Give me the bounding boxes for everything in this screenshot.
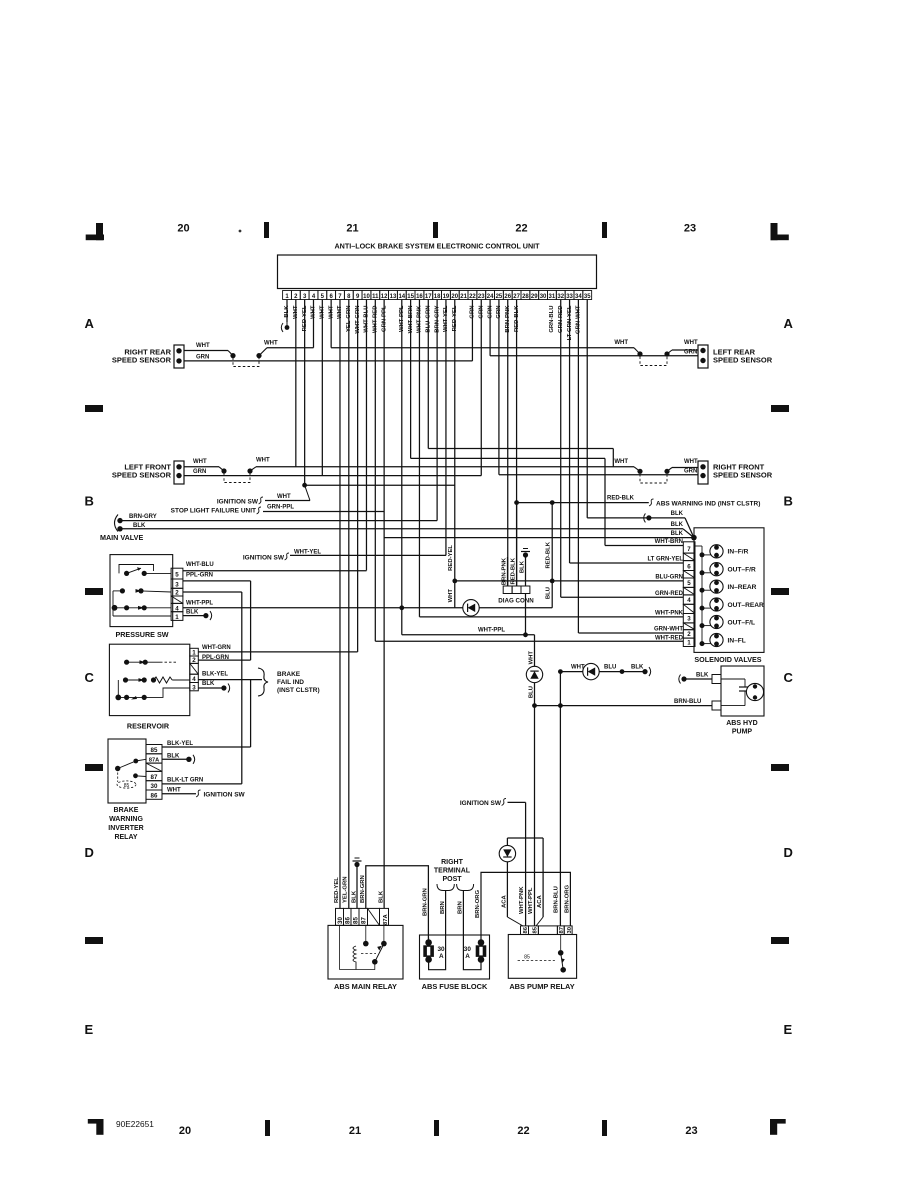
svg-text:BRN-ORG: BRN-ORG [475, 889, 481, 918]
inline connector right rear [230, 353, 235, 358]
svg-text:85: 85 [151, 747, 158, 754]
svg-text:(INST CLSTR): (INST CLSTR) [277, 687, 320, 694]
svg-text:BLK: BLK [167, 753, 180, 759]
inline connector right front [637, 469, 642, 474]
scan speck [239, 230, 242, 233]
wire from pin 11 [374, 300, 376, 642]
svg-text:RELAY: RELAY [114, 834, 137, 841]
pump relay diode loop [507, 837, 543, 839]
svg-text:A: A [465, 953, 470, 960]
svg-text:90E22651: 90E22651 [116, 1119, 154, 1129]
svg-text:BLU: BLU [604, 665, 616, 671]
svg-text:RED-BLK: RED-BLK [546, 541, 552, 568]
wire from pin 6 [330, 300, 332, 348]
svg-text:19: 19 [443, 294, 450, 300]
svg-text:GRN-PPL: GRN-PPL [267, 505, 294, 511]
svg-text:30: 30 [540, 294, 547, 300]
svg-text:ANTI–LOCK BRAKE SYSTEM ELECTRO: ANTI–LOCK BRAKE SYSTEM ELECTRONIC CONTRO… [334, 242, 540, 251]
abs main relay box [328, 925, 403, 979]
abs hyd pump terminal boxes [712, 675, 721, 684]
reservoir internal contacts [124, 660, 129, 665]
svg-text:87: 87 [151, 774, 158, 781]
svg-text:14: 14 [398, 294, 405, 300]
svg-text:2: 2 [687, 631, 691, 638]
svg-text:28: 28 [522, 294, 529, 300]
wire WHT-RED pin11 to solenoid 1 [375, 640, 683, 642]
svg-text:3: 3 [175, 582, 179, 589]
wire WHT left rear sensor to pin 6 [331, 347, 634, 349]
wire from pin 34 [577, 300, 579, 634]
svg-text:SPEED SENSOR: SPEED SENSOR [713, 471, 773, 480]
svg-text:WHT-RED: WHT-RED [655, 636, 684, 642]
wire pin 17 jog to right front WHT [428, 448, 613, 450]
svg-text:BRAKE: BRAKE [277, 671, 301, 678]
svg-text:32: 32 [557, 294, 564, 300]
svg-text:20: 20 [179, 1125, 191, 1137]
svg-text:WHT-PPL: WHT-PPL [186, 601, 213, 607]
solenoid valve coils [700, 552, 705, 557]
wire WHT-BRN pin15 to solenoid 7 [605, 545, 683, 547]
left edge section marks [85, 405, 103, 412]
svg-text:3: 3 [687, 616, 691, 623]
ECU box U1 [278, 255, 597, 289]
svg-text:LT GRN-YEL: LT GRN-YEL [647, 557, 683, 563]
svg-text:ABS MAIN RELAY: ABS MAIN RELAY [334, 982, 397, 991]
svg-text:26: 26 [504, 294, 511, 300]
svg-text:BRN-BLU: BRN-BLU [674, 699, 701, 705]
svg-text:A: A [85, 316, 95, 331]
svg-text:20: 20 [451, 294, 458, 300]
wire from pin 2 [295, 300, 297, 467]
svg-text:PPL-GRN: PPL-GRN [186, 573, 213, 579]
svg-text:85: 85 [124, 783, 130, 789]
BRN post wire 1 to fuse 1 [429, 891, 446, 970]
svg-text:YEL-GRN: YEL-GRN [343, 876, 349, 903]
svg-text:BLK: BLK [631, 665, 644, 671]
junction node pin14 on WHT-PPL [399, 605, 404, 610]
svg-text:87: 87 [361, 917, 368, 924]
wire from pin 20 [454, 300, 456, 608]
svg-text:BLK: BLK [378, 890, 384, 903]
reservoir box [109, 644, 189, 715]
abs hyd pump BLK connector [681, 676, 686, 681]
wire from pin 24 [489, 300, 491, 356]
wire from pin 17 [427, 300, 429, 449]
svg-text:18: 18 [434, 294, 441, 300]
svg-text:SPEED SENSOR: SPEED SENSOR [112, 356, 172, 365]
wire from pin 22 [471, 300, 473, 361]
svg-text:WHT-PNK: WHT-PNK [519, 886, 525, 914]
svg-text:IGNITION SW: IGNITION SW [217, 499, 259, 506]
wire from pin 7 [339, 300, 341, 909]
svg-text:GRN: GRN [196, 355, 209, 361]
svg-text:ABS HYD: ABS HYD [726, 720, 758, 727]
wire WHT-PPL pin13 run [402, 634, 535, 636]
svg-text:C: C [85, 670, 95, 685]
wire LT GRN-YEL pin33 to solenoid 6 [570, 562, 684, 564]
svg-text:WHT: WHT [448, 589, 454, 603]
svg-text:5: 5 [175, 572, 179, 579]
svg-text:WHT-BRN: WHT-BRN [655, 539, 683, 545]
solenoid terminal column 7-1 [683, 542, 695, 553]
svg-text:IGNITION SW: IGNITION SW [460, 800, 502, 807]
wire BRN-GRY main valve to pin 18 [120, 520, 437, 522]
svg-text:86: 86 [151, 793, 158, 800]
wire ignition feed to RED-YEL column [305, 484, 455, 486]
svg-text:BLU: BLU [546, 587, 552, 599]
pressure switch internal contacts [119, 565, 154, 574]
top column tick 21-22 [433, 222, 438, 238]
svg-text:WHT: WHT [684, 340, 698, 346]
svg-text:RED-BLK: RED-BLK [511, 557, 517, 584]
svg-text:WHT: WHT [614, 459, 628, 465]
svg-text:PUMP: PUMP [732, 729, 753, 736]
solenoid ground junction node [691, 535, 697, 541]
svg-text:WHT: WHT [277, 494, 291, 500]
svg-text:ACA: ACA [501, 894, 507, 908]
wire from pin 16 [418, 300, 420, 617]
wire from pin 4 [312, 300, 314, 348]
wire from pin 9 [357, 300, 359, 652]
fuse 1 30A [428, 938, 430, 943]
left front speed sensor box [174, 461, 184, 484]
svg-text:ABS PUMP RELAY: ABS PUMP RELAY [509, 982, 574, 991]
abs pump relay box [508, 935, 576, 979]
svg-text:BRN-GRY: BRN-GRY [129, 514, 157, 520]
inline connector left front [221, 468, 226, 473]
abs hyd pump internal capacitor and motor [721, 678, 745, 680]
svg-text:23: 23 [478, 294, 485, 300]
svg-text:85: 85 [532, 926, 538, 933]
svg-text:INVERTER: INVERTER [108, 825, 143, 832]
svg-text:SPEED SENSOR: SPEED SENSOR [713, 356, 773, 365]
svg-text:ABS WARNING IND (INST CLSTR): ABS WARNING IND (INST CLSTR) [656, 501, 760, 508]
svg-text:23: 23 [684, 223, 696, 235]
svg-text:B: B [784, 494, 793, 509]
svg-text:BRN-GRN: BRN-GRN [423, 888, 429, 916]
svg-text:13: 13 [390, 294, 397, 300]
svg-text:BLK-LT GRN: BLK-LT GRN [167, 778, 203, 784]
junction node ignition [302, 483, 307, 488]
wire GRN right rear sensor to pin 22 [184, 360, 473, 362]
svg-text:16: 16 [416, 294, 423, 300]
svg-text:B: B [85, 494, 94, 509]
vertical wire BLK-YEL to inverter relay [250, 680, 252, 747]
fuse 2 30A [480, 938, 482, 943]
svg-text:IGNITION SW: IGNITION SW [243, 555, 285, 562]
svg-text:WHT: WHT [167, 788, 181, 794]
svg-text:21: 21 [346, 223, 358, 235]
svg-text:85: 85 [352, 917, 359, 924]
svg-text:BLK: BLK [696, 673, 709, 679]
three BLK wires to solenoid common [586, 300, 588, 518]
svg-text:SPEED SENSOR: SPEED SENSOR [112, 471, 172, 480]
wire from pin 14 [401, 300, 403, 635]
wire BLK main valve to solenoid ground node [120, 528, 683, 530]
svg-text:87A: 87A [149, 757, 159, 763]
wire BRN-BLU to abs hyd pump [535, 705, 713, 707]
solenoid internal rail [695, 545, 702, 547]
svg-text:BLK: BLK [520, 560, 526, 573]
diag conn BLK ground [525, 556, 527, 586]
svg-text:BRN-ORG: BRN-ORG [564, 884, 570, 913]
svg-text:OUT–REAR: OUT–REAR [728, 602, 765, 609]
bottom column tick 20-21 [265, 1120, 270, 1136]
svg-text:IN–FL: IN–FL [728, 637, 746, 644]
pressure switch box [110, 555, 173, 627]
svg-text:RIGHT: RIGHT [441, 859, 464, 866]
pressure switch terminals 5 3 2 4 1 [171, 568, 183, 579]
svg-text:BLK: BLK [186, 610, 199, 616]
svg-text:WHT: WHT [529, 651, 535, 665]
vertical wire relay 87 to pump [559, 672, 561, 926]
svg-text:IN–REAR: IN–REAR [728, 584, 757, 591]
svg-text:DIAG CONN: DIAG CONN [498, 598, 534, 605]
wire pressure sw terminal 2 jog [183, 591, 242, 593]
wire from pin 8 [348, 300, 350, 909]
svg-text:12: 12 [381, 294, 388, 300]
top column tick 22-23 [602, 222, 607, 238]
abs fuse block box [420, 935, 490, 979]
svg-text:E: E [784, 1022, 793, 1037]
wire GRN left rear sensor to pin 24 [490, 355, 698, 357]
svg-text:11: 11 [372, 294, 379, 300]
wire from pin 12 [383, 300, 385, 909]
reservoir terminals 1 2 4 3 [190, 648, 199, 656]
junction node pump feed [532, 703, 537, 708]
svg-text:GRN-WHT: GRN-WHT [654, 627, 683, 633]
bottom column tick 21-22 [434, 1120, 439, 1136]
svg-text:22: 22 [515, 223, 527, 235]
main relay internals [340, 926, 356, 970]
top-left corner registration mark [96, 223, 103, 240]
svg-text:BRN: BRN [440, 901, 446, 914]
bottom-right corner registration mark [773, 1119, 786, 1124]
svg-text:BLK: BLK [133, 523, 146, 529]
svg-text:RED-YEL: RED-YEL [334, 877, 340, 903]
svg-text:ABS FUSE BLOCK: ABS FUSE BLOCK [422, 982, 488, 991]
brake warning inverter relay box [108, 739, 146, 803]
abs hyd pump box [721, 666, 764, 716]
svg-text:22: 22 [517, 1125, 529, 1137]
svg-text:35: 35 [584, 294, 591, 300]
svg-text:A: A [784, 316, 794, 331]
wire GRN-WHT pin34 to solenoid 2 [579, 632, 684, 634]
wire GRN right front from pin 25 [499, 474, 698, 476]
wire GRN left front to pin 23 [184, 475, 481, 477]
svg-text:WHT-PPL: WHT-PPL [528, 887, 534, 914]
svg-text:BLK: BLK [671, 531, 684, 537]
bottom column tick 22-23 [602, 1120, 607, 1136]
svg-text:WHT: WHT [256, 458, 270, 464]
wire GRN-RED pin32 to solenoid 4 [561, 596, 684, 598]
svg-text:E: E [85, 1022, 94, 1037]
wire from pin 15 [410, 300, 412, 459]
wire from pin 5 [321, 300, 323, 476]
svg-text:BLK: BLK [671, 511, 684, 517]
svg-text:WHT-BLU: WHT-BLU [186, 562, 214, 568]
wire BRN-ORG from fuse2 to pump relay 30 [481, 872, 570, 942]
svg-text:BLK: BLK [671, 522, 684, 528]
svg-text:TERMINAL: TERMINAL [434, 868, 471, 875]
top column tick 20-21 [264, 222, 269, 238]
wire from pin 26 [507, 300, 509, 587]
svg-text:WHT: WHT [196, 343, 210, 349]
ECU pin row boxes 1-35 [283, 291, 292, 300]
svg-text:RED-BLK: RED-BLK [607, 496, 635, 502]
svg-text:WHT-GRN: WHT-GRN [202, 645, 231, 651]
svg-text:24: 24 [487, 294, 494, 300]
svg-text:3: 3 [192, 684, 196, 691]
svg-text:POST: POST [442, 876, 462, 883]
svg-text:GRN-BLU: GRN-BLU [549, 306, 555, 333]
wire from pin 10 [365, 300, 367, 571]
main relay terminal boxes [336, 908, 344, 925]
left rear speed sensor box [698, 345, 708, 368]
svg-text:30: 30 [438, 946, 446, 953]
diode symbol on pump feed [526, 666, 542, 682]
svg-text:7: 7 [687, 546, 691, 553]
right edge section marks [771, 405, 789, 412]
BRN post wire 2 to fuse 2 [463, 891, 481, 970]
wire from pin 1 [286, 300, 288, 323]
solenoid valves box [694, 528, 764, 653]
right terminal post braces [437, 884, 454, 891]
svg-text:6: 6 [687, 563, 691, 570]
wire from pin 32 [560, 300, 562, 598]
svg-text:IGNITION SW: IGNITION SW [204, 792, 246, 799]
junction node diag column [523, 632, 528, 637]
vertical wire PPL-GRN pressure to reservoir [250, 581, 252, 660]
svg-text:30: 30 [464, 946, 472, 953]
svg-text:GRN-RED: GRN-RED [655, 591, 684, 597]
inverter relay internal [115, 766, 120, 771]
svg-text:30: 30 [337, 917, 344, 924]
svg-text:OUT–F/L: OUT–F/L [728, 619, 755, 626]
svg-text:FAIL IND: FAIL IND [277, 679, 304, 686]
svg-text:BRN-BLU: BRN-BLU [554, 886, 560, 913]
wire from pin 23 [480, 300, 482, 476]
svg-text:BLK: BLK [202, 681, 215, 687]
svg-text:WHT: WHT [193, 459, 207, 465]
svg-text:20: 20 [177, 223, 189, 235]
svg-text:33: 33 [566, 294, 573, 300]
svg-text:4: 4 [687, 597, 691, 604]
svg-text:BRN-PNK: BRN-PNK [502, 557, 508, 585]
svg-text:GRN: GRN [684, 350, 697, 356]
svg-text:85: 85 [524, 955, 530, 961]
svg-text:87A: 87A [383, 914, 389, 925]
svg-text:RESERVOIR: RESERVOIR [127, 722, 170, 731]
svg-text:2: 2 [192, 657, 196, 664]
svg-text:STOP LIGHT FAILURE UNIT: STOP LIGHT FAILURE UNIT [171, 508, 256, 515]
svg-text:5: 5 [687, 580, 691, 587]
wire BLU-GRN pin17 to solenoid 5 [455, 580, 684, 582]
pin 1 BLK ground stub connector [286, 322, 288, 326]
svg-text:17: 17 [425, 294, 432, 300]
brake fail ind brace [258, 668, 268, 696]
wire from pin 19 [445, 300, 447, 556]
svg-text:GRN: GRN [193, 469, 206, 475]
svg-text:1: 1 [192, 650, 196, 657]
svg-text:WHT-PPL: WHT-PPL [478, 628, 505, 634]
svg-text:BLU-GRN: BLU-GRN [655, 574, 683, 580]
svg-text:OUT–F/R: OUT–F/R [728, 567, 756, 574]
svg-text:23: 23 [685, 1125, 697, 1137]
diag conn RED-BLK wire from pin 27 [516, 503, 518, 586]
wire from pin 3 [304, 300, 306, 486]
svg-text:BLU: BLU [529, 686, 535, 698]
svg-text:SOLENOID VALVES: SOLENOID VALVES [694, 655, 761, 664]
svg-text:30: 30 [567, 927, 573, 933]
svg-text:WHT: WHT [264, 341, 278, 347]
diag conn BRN-PNK stub [507, 557, 509, 586]
svg-text:BRN: BRN [458, 901, 464, 914]
svg-text:31: 31 [549, 294, 556, 300]
svg-text:29: 29 [531, 294, 538, 300]
svg-text:ACA: ACA [537, 894, 543, 908]
svg-text:D: D [85, 845, 94, 860]
junction corner down to pump relay 85 [534, 635, 536, 926]
svg-text:10: 10 [363, 294, 370, 300]
svg-text:4: 4 [192, 676, 196, 683]
svg-text:WHT-PNK: WHT-PNK [655, 610, 684, 616]
wire GRN-BLU warning junction down to diag area [551, 503, 553, 608]
svg-text:RED-YEL: RED-YEL [448, 545, 454, 571]
junction dots on BLU-GRN line [452, 579, 457, 584]
svg-text:30: 30 [151, 783, 158, 790]
wire WHT-PNK pin16 to solenoid 3 [420, 616, 684, 618]
pump relay internals [518, 960, 555, 962]
pump relay terminal boxes [521, 926, 529, 935]
svg-text:25: 25 [496, 294, 503, 300]
wire WHT right rear sensor to pin 4 [184, 350, 228, 352]
diode symbol on WHT-PPL line [463, 600, 479, 616]
svg-text:21: 21 [460, 294, 467, 300]
svg-text:WHT: WHT [614, 340, 628, 346]
inverter relay terminals 85 87A 87 30 86 [146, 745, 162, 754]
svg-text:PRESSURE SW: PRESSURE SW [115, 630, 168, 639]
svg-text:GRN: GRN [684, 469, 697, 475]
wire WHT front sensors common run [184, 466, 219, 468]
wire motor check run WHT BLU BLK [558, 669, 563, 674]
svg-text:BLK-YEL: BLK-YEL [202, 672, 228, 678]
junction node RED-BLK / GRN-BLU [550, 500, 555, 505]
svg-text:WHT: WHT [684, 459, 698, 465]
right front speed sensor box [698, 461, 708, 484]
svg-text:1: 1 [687, 639, 691, 646]
wire from pin 25 [498, 300, 500, 475]
svg-text:21: 21 [349, 1125, 361, 1137]
svg-text:WHT-YEL: WHT-YEL [294, 550, 321, 556]
svg-text:D: D [784, 845, 793, 860]
wire pin 15 WHT-BRN jog [411, 457, 605, 459]
svg-text:A: A [439, 953, 444, 960]
svg-text:C: C [784, 670, 794, 685]
svg-text:27: 27 [513, 294, 520, 300]
right rear speed sensor box [174, 345, 184, 368]
wire from pin 18 [436, 300, 438, 521]
inline connector left rear [637, 351, 642, 356]
wire from pin 33 [569, 300, 571, 564]
svg-text:IN–F/R: IN–F/R [728, 549, 749, 556]
svg-text:34: 34 [575, 294, 582, 300]
diag conn terminal boxes [503, 586, 512, 594]
diag conn lower wire to WHT-PPL junction [525, 594, 527, 635]
svg-text:BRAKE: BRAKE [114, 807, 139, 814]
svg-text:22: 22 [469, 294, 476, 300]
wire from pin 27 [516, 300, 518, 587]
